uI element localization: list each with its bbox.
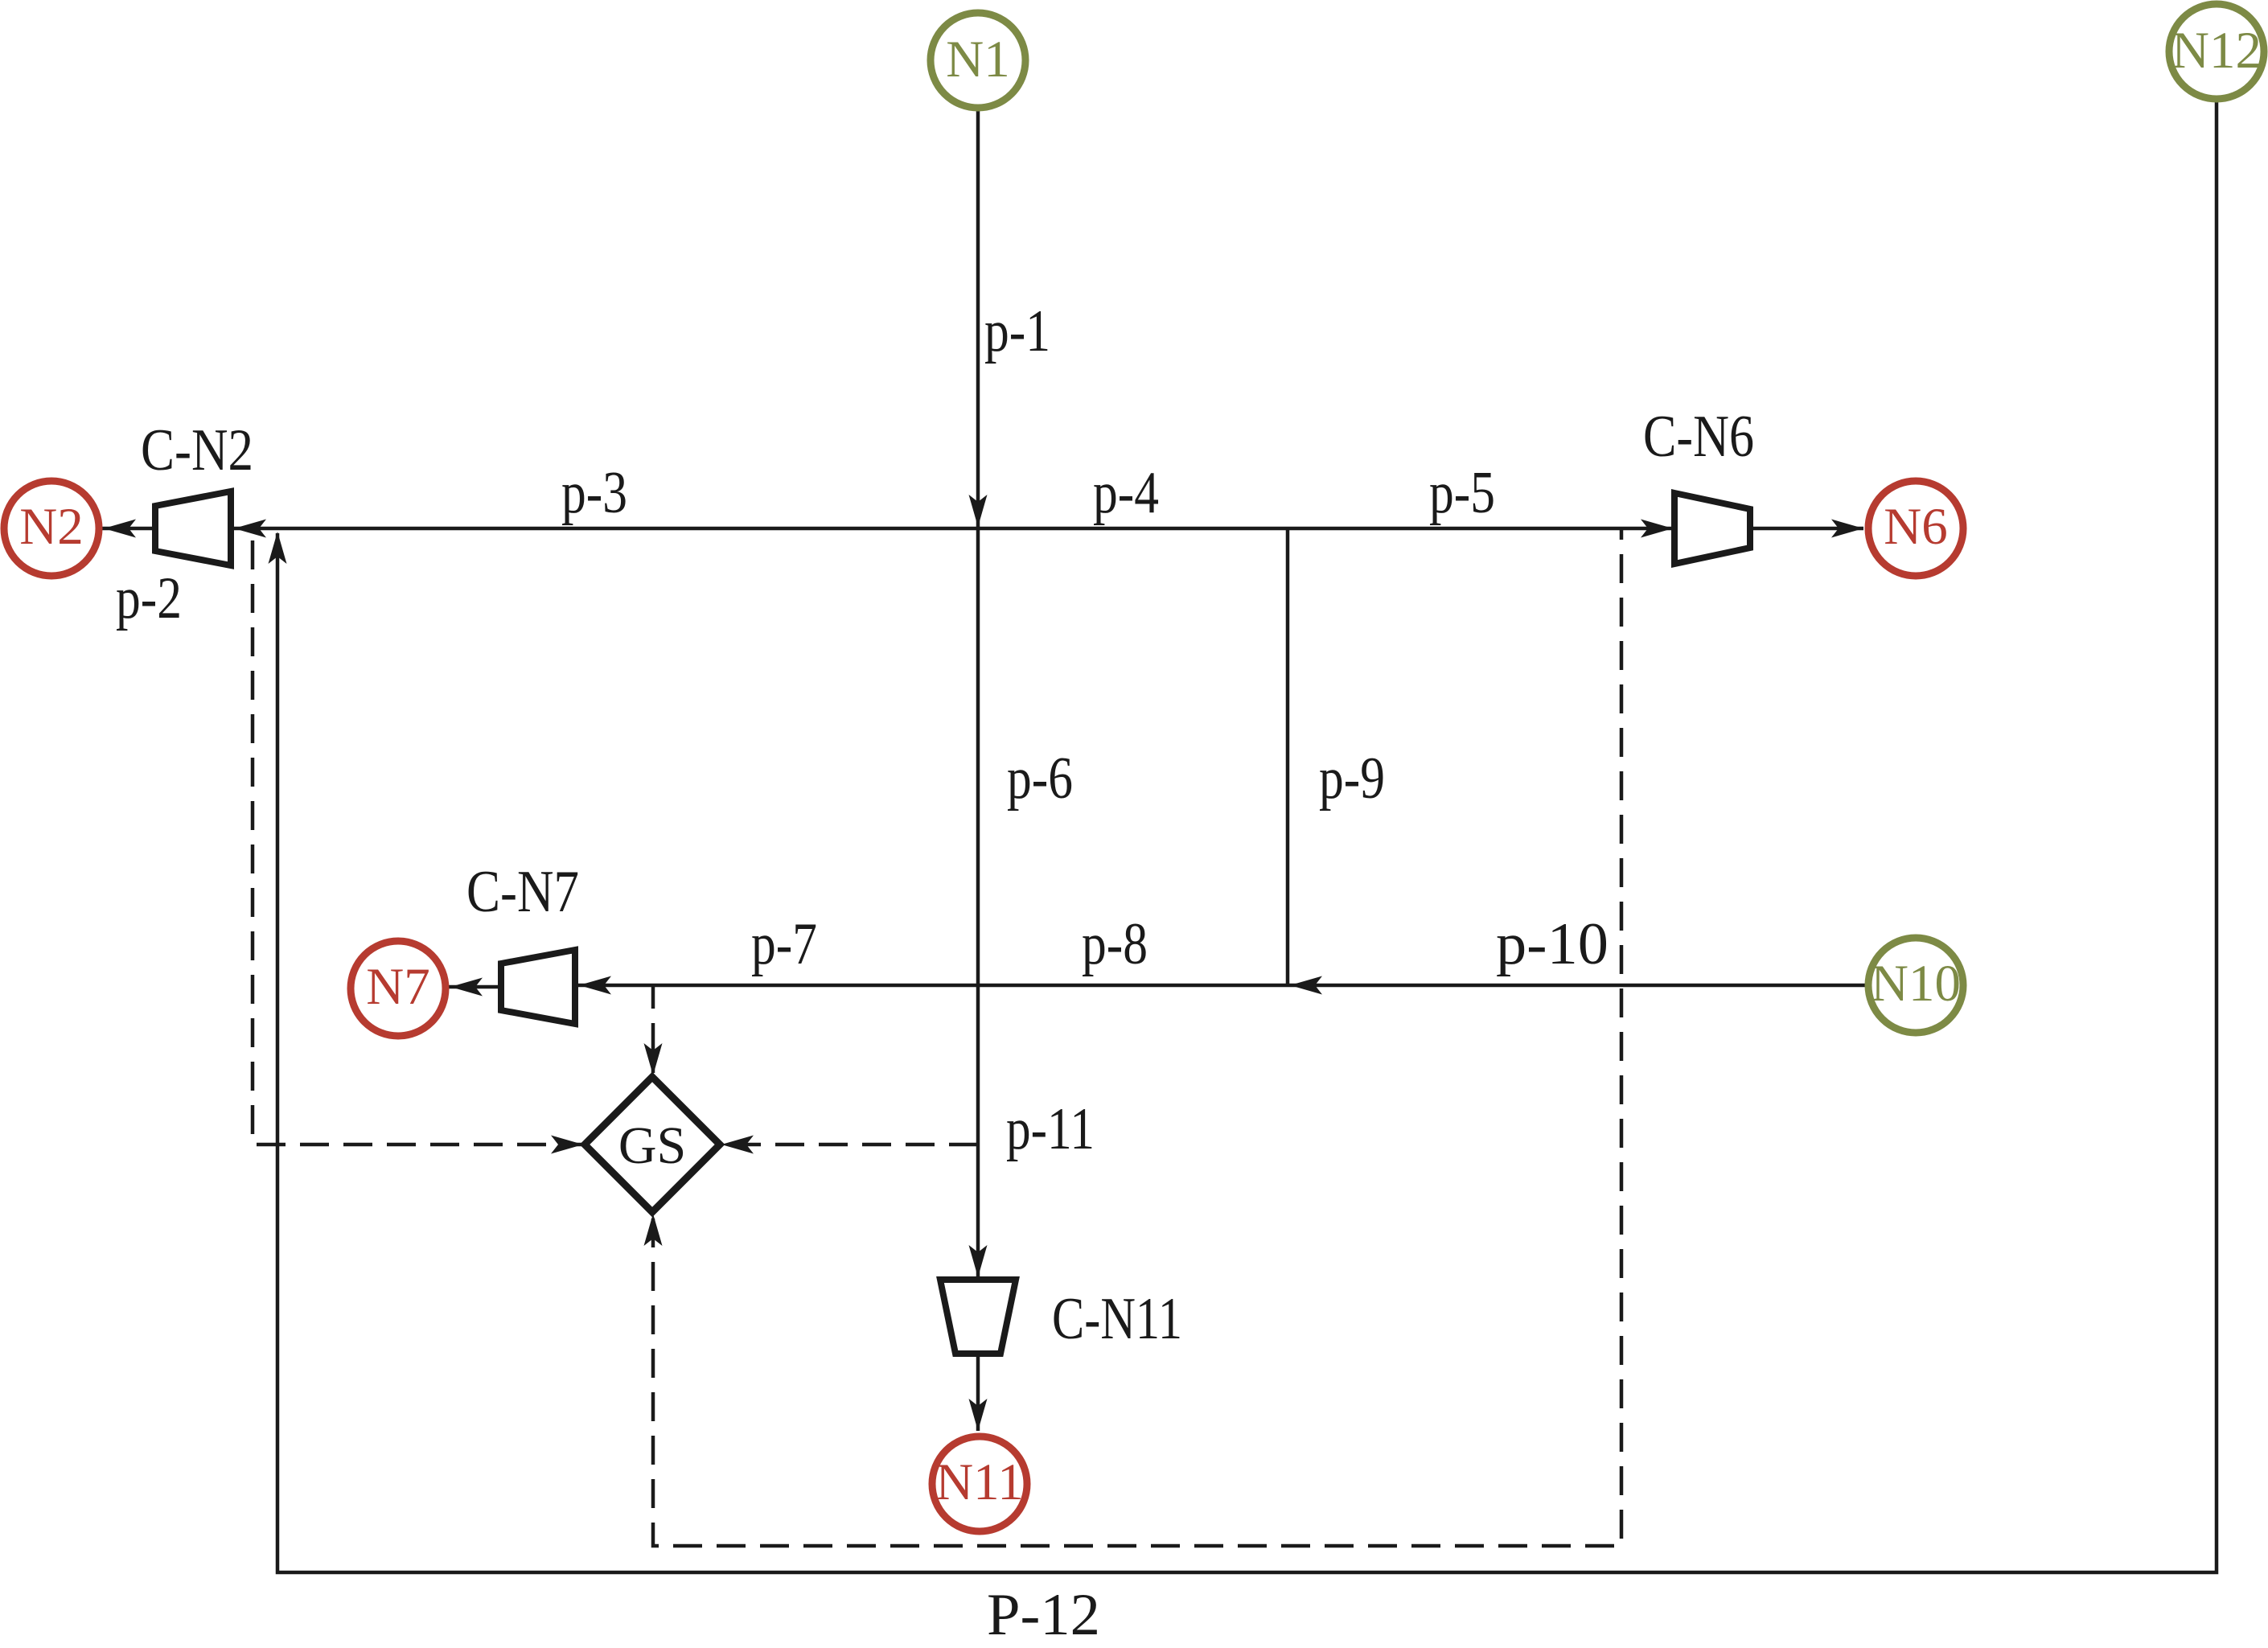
svg-text:p-9: p-9 <box>1319 746 1385 812</box>
wire C-N11 outlet to N11 <box>976 1354 980 1431</box>
svg-text:p-10: p-10 <box>1496 911 1609 977</box>
wire main horizontal line p-3/p-4/p-5 <box>102 527 1674 531</box>
gas storage GS diamond <box>585 1077 720 1212</box>
svg-text:C-N7: C-N7 <box>466 859 579 925</box>
node N11 <box>932 1436 1027 1531</box>
dashed control line from p-11 to GS right vertex <box>723 1143 978 1147</box>
arrow into C-N7 right side <box>579 976 611 995</box>
compressor C-N6 <box>1674 493 1750 564</box>
wire C-N7 outlet to N7 <box>449 985 501 989</box>
svg-text:GS: GS <box>618 1116 686 1175</box>
arrow up into main line (P-12 return) <box>269 532 287 564</box>
arrow into N7 <box>450 978 483 997</box>
svg-text:C-N2: C-N2 <box>141 417 253 483</box>
dashed control line from p-2/p-3 junction down to GS <box>253 533 581 1145</box>
arrow into GS right vertex <box>721 1136 754 1154</box>
svg-text:p-5: p-5 <box>1429 460 1495 526</box>
arrow into N6 <box>1831 520 1863 538</box>
svg-text:P-12: P-12 <box>987 1582 1100 1648</box>
wire p-7/p-8/p-10 horizontal <box>577 984 1865 988</box>
svg-text:N6: N6 <box>1884 498 1947 556</box>
arrow into p-9 junction (p-10 flow) <box>1290 976 1322 995</box>
arrow into GS left vertex <box>551 1136 583 1154</box>
node N7 <box>351 941 446 1036</box>
svg-text:p-1: p-1 <box>984 298 1050 364</box>
node N1 <box>931 13 1025 108</box>
arrow into N11 <box>969 1399 988 1431</box>
arrow into C-N2 right side <box>234 520 266 538</box>
svg-text:N12: N12 <box>2171 22 2262 80</box>
node N12 <box>2169 4 2264 99</box>
compressor C-N2 <box>155 491 231 565</box>
node N6 <box>1868 481 1963 576</box>
dashed control line from p-7 down to GS top <box>651 985 655 1073</box>
arrow up into GS bottom vertex <box>644 1214 663 1246</box>
svg-text:N2: N2 <box>19 498 83 556</box>
wire C-N6 outlet to N6 <box>1750 527 1863 531</box>
svg-text:p-11: p-11 <box>1006 1096 1095 1162</box>
wire N12 vertical right side <box>277 102 2217 1572</box>
arrow into C-N11 <box>969 1245 988 1277</box>
svg-text:N1: N1 <box>946 31 1009 88</box>
svg-text:p-8: p-8 <box>1082 911 1148 977</box>
arrow into junction (p-1) <box>969 495 988 527</box>
svg-text:N7: N7 <box>366 958 429 1016</box>
wire p-6 / p-11 vertical <box>976 528 980 1277</box>
svg-text:p-3: p-3 <box>561 460 627 526</box>
svg-text:C-N6: C-N6 <box>1643 404 1754 470</box>
dashed control loop from C-N6 junction down around to GS bottom <box>653 528 1621 1546</box>
svg-text:C-N11: C-N11 <box>1052 1286 1182 1352</box>
compressor C-N7 <box>501 950 575 1024</box>
svg-text:N11: N11 <box>935 1453 1024 1511</box>
arrow into N2 <box>104 520 136 538</box>
node N2 <box>4 481 99 576</box>
node N10 <box>1868 938 1963 1033</box>
wire p-1 vertical from N1 to main junction <box>976 111 980 527</box>
wire p-9 vertical <box>1286 528 1290 985</box>
svg-text:p-7: p-7 <box>751 911 817 977</box>
arrow into C-N6 left side <box>1641 520 1673 538</box>
arrow into GS top vertex <box>644 1043 663 1075</box>
compressor C-N11 <box>940 1280 1016 1354</box>
svg-text:N10: N10 <box>1871 955 1961 1013</box>
svg-text:p-6: p-6 <box>1007 746 1073 812</box>
svg-text:p-2: p-2 <box>116 565 182 631</box>
svg-text:p-4: p-4 <box>1093 460 1159 526</box>
